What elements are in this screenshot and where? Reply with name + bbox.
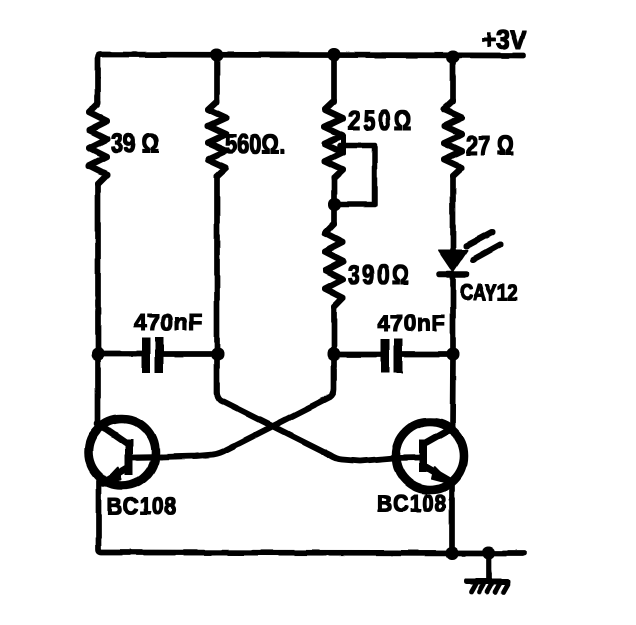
svg-text:+3V: +3V: [482, 26, 527, 55]
svg-text:27 Ω: 27 Ω: [466, 130, 514, 161]
svg-text:39 Ω: 39 Ω: [111, 128, 159, 159]
svg-text:BC108: BC108: [107, 493, 177, 520]
svg-text:CAY12: CAY12: [460, 281, 518, 306]
svg-text:BC108: BC108: [377, 490, 447, 517]
svg-text:250Ω: 250Ω: [348, 105, 414, 136]
svg-text:560Ω.: 560Ω.: [225, 129, 285, 160]
svg-text:390Ω: 390Ω: [348, 259, 411, 290]
svg-text:470nF: 470nF: [134, 309, 203, 335]
svg-text:470nF: 470nF: [377, 310, 446, 336]
